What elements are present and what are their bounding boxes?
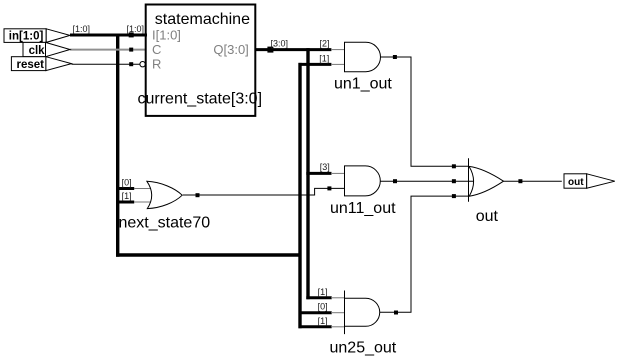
- svg-text:[3:0]: [3:0]: [271, 38, 289, 48]
- svg-text:statemachine: statemachine: [155, 11, 250, 28]
- svg-text:reset: reset: [17, 59, 45, 71]
- svg-text:[1:0]: [1:0]: [127, 24, 145, 34]
- svg-text:[3]: [3]: [320, 162, 330, 172]
- svg-text:[1]: [1]: [318, 287, 328, 297]
- svg-text:Q[3:0]: Q[3:0]: [213, 42, 248, 57]
- svg-text:un11_out: un11_out: [330, 200, 396, 217]
- svg-text:in[1:0]: in[1:0]: [9, 31, 44, 43]
- svg-text:[1]: [1]: [319, 53, 329, 63]
- svg-text:R: R: [152, 57, 161, 72]
- svg-text:out: out: [476, 208, 499, 225]
- svg-text:[1:0]: [1:0]: [73, 24, 91, 34]
- svg-text:[0]: [0]: [122, 177, 132, 187]
- svg-text:clk: clk: [29, 45, 46, 57]
- svg-text:[1]: [1]: [318, 316, 328, 326]
- svg-text:un1_out: un1_out: [334, 75, 392, 92]
- svg-text:[2]: [2]: [320, 38, 330, 48]
- svg-text:[0]: [0]: [318, 302, 328, 312]
- svg-text:next_state70: next_state70: [119, 214, 211, 231]
- svg-text:current_state[3:0]: current_state[3:0]: [138, 91, 263, 108]
- svg-text:un25_out: un25_out: [330, 339, 397, 356]
- svg-text:out: out: [568, 177, 584, 188]
- svg-text:I[1:0]: I[1:0]: [152, 28, 181, 43]
- svg-text:[1]: [1]: [122, 191, 132, 201]
- svg-text:C: C: [152, 42, 161, 57]
